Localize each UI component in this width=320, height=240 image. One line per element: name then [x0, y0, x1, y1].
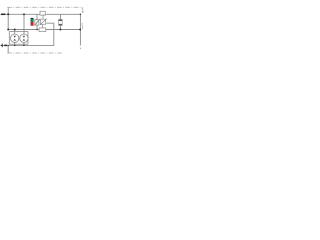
arrow exit bottom right: [80, 48, 82, 50]
enclosure boundary left upper segment: [7, 7, 9, 14]
enclosure dashed boundary top: [7, 6, 82, 8]
gas discharge tube F1: [59, 19, 63, 25]
bus N middle horizontal wire: [8, 29, 80, 31]
varistor MOV1: [35, 20, 39, 26]
wire left elbow from L1 down to N: [7, 14, 9, 29]
node F1 at N: [59, 29, 61, 31]
node at L1 left elbow: [7, 13, 9, 15]
wire stub L1 to MOV2: [42, 14, 44, 19]
wire stub L1 to MOV1: [36, 14, 38, 19]
node MOV1 at N: [36, 29, 38, 31]
resistor R2 in bus N: [39, 28, 46, 32]
spark gap SG2: [20, 34, 28, 42]
status indicator flag green/red: [31, 18, 34, 19]
label mark terminal 1 (top right): [82, 11, 83, 13]
bus L1 top horizontal wire: [2, 13, 81, 15]
right vertical wire from L1 end down: [79, 14, 81, 45]
enclosure dashed boundary bottom: [7, 52, 62, 54]
wire stub MOV1 to N: [36, 25, 38, 29]
terminal left of bus L1 (thick lead + arrow): [2, 13, 6, 15]
node SG1 at PE: [14, 45, 16, 47]
background: [0, 0, 87, 61]
spark gap module box: [9, 32, 28, 45]
wire L1 down to spark gap SG2 (crossing N): [23, 14, 25, 34]
wire stub L1 to F1: [59, 14, 61, 19]
node SG2 at PE: [23, 45, 25, 47]
spark gap SG1: [11, 34, 19, 42]
terminal left of PE wire (arrow + tick + thick lead): [0, 45, 2, 47]
node junction N right end: [79, 29, 81, 31]
wire SG2 to PE: [23, 42, 25, 45]
wire PE continues down at left to boundary: [7, 45, 9, 52]
label mark terminal 2 (right middle): [81, 23, 84, 29]
node PE left: [8, 45, 9, 46]
wire stub MOV2 to R2: [42, 24, 44, 28]
bottom PE horizontal wire with riser elbow: [2, 23, 54, 45]
wire stub F1 to N: [59, 25, 61, 29]
wire SG1 to PE: [14, 42, 16, 45]
enclosure boundary left lower segment: [7, 45, 9, 53]
enclosure dashed boundary right corner stub: [81, 7, 83, 10]
node SG1 at N: [14, 29, 16, 31]
wire N to spark gap SG1: [14, 30, 16, 35]
node at N left end: [7, 29, 9, 31]
node at L1 right elbow: [80, 14, 82, 16]
resistor R1 in bus L1: [40, 11, 45, 15]
node SG2 at L1: [23, 13, 25, 15]
varistor MOV2: [40, 19, 45, 24]
